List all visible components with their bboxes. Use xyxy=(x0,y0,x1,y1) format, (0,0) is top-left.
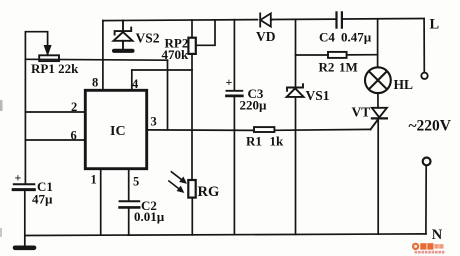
potentiometer RP1 wiper wire xyxy=(25,32,47,47)
svg-text:~220V: ~220V xyxy=(409,117,452,134)
wire RG bottom xyxy=(191,198,193,235)
diode VD xyxy=(260,13,271,26)
wire R2 left xyxy=(296,54,329,56)
capacitor C3 xyxy=(227,91,243,96)
photoresistor RG arrows xyxy=(169,172,186,193)
wire C2 bottom xyxy=(128,208,130,235)
wire pin8 vertical xyxy=(102,21,104,90)
wire RP1 row xyxy=(25,58,167,61)
wire R2 right xyxy=(347,54,378,56)
svg-text:2: 2 xyxy=(71,100,77,114)
scan mark left edge xyxy=(0,100,3,111)
wire left vertical xyxy=(24,33,26,183)
wire R1 to VT gate xyxy=(274,128,370,131)
svg-text:3: 3 xyxy=(151,115,157,129)
zener diode VS1 xyxy=(287,84,304,97)
wire pin3 row xyxy=(147,129,254,132)
thyristor VT xyxy=(371,108,387,130)
lamp HL xyxy=(365,67,391,93)
wire pin6 xyxy=(25,139,85,141)
photoresistor RG body xyxy=(188,180,195,198)
terminal L xyxy=(421,73,427,79)
svg-text:4: 4 xyxy=(132,77,139,91)
ground xyxy=(15,246,34,251)
potentiometer RP2 top wire xyxy=(191,20,193,38)
svg-text:VD: VD xyxy=(256,29,276,44)
svg-text:VT: VT xyxy=(352,105,371,120)
potentiometer RP1 wiper arrowhead xyxy=(44,46,51,56)
watermark logo xyxy=(412,243,445,254)
wire VS1 bottom xyxy=(295,97,297,234)
svg-text:C4: C4 xyxy=(319,30,335,45)
zener diode VS1 top wire xyxy=(295,19,297,87)
wire L terminal drop xyxy=(423,19,425,73)
svg-text:RP1 22k: RP1 22k xyxy=(31,61,79,76)
svg-text:L: L xyxy=(430,16,440,32)
wire HL top xyxy=(377,19,379,68)
capacitor C2 xyxy=(120,201,140,207)
svg-text:IC: IC xyxy=(110,124,126,139)
wire pin5 xyxy=(128,169,130,201)
svg-text:8: 8 xyxy=(92,76,98,90)
svg-text:47µ: 47µ xyxy=(32,191,53,206)
svg-text:220µ: 220µ xyxy=(240,98,268,113)
svg-text:R2: R2 xyxy=(319,59,335,74)
svg-text:+: + xyxy=(226,75,233,89)
svg-text:R1: R1 xyxy=(246,133,262,148)
svg-text:VS1: VS1 xyxy=(306,88,330,103)
capacitor C4 xyxy=(337,12,342,27)
wire top rail right segment xyxy=(342,18,424,21)
wire bottom rail xyxy=(25,234,426,236)
resistor R1 xyxy=(254,127,274,132)
svg-text:0.01µ: 0.01µ xyxy=(134,209,165,224)
svg-text:1k: 1k xyxy=(270,133,285,148)
wire corner to pin3 row xyxy=(167,60,169,130)
wire RP2 bottom to RG xyxy=(191,54,193,180)
svg-text:1: 1 xyxy=(91,173,97,187)
wire HL to VT xyxy=(377,93,379,108)
wire pin2 xyxy=(25,111,85,113)
svg-text:+: + xyxy=(15,171,22,185)
svg-text:VS2: VS2 xyxy=(136,31,160,46)
wire VT cathode xyxy=(377,119,379,234)
potentiometer RP2 wiper xyxy=(196,20,215,45)
potentiometer RP2 body xyxy=(188,38,195,54)
potentiometer RP1 body xyxy=(39,55,59,61)
capacitor C3 top wire xyxy=(233,20,235,91)
svg-text:HL: HL xyxy=(394,77,414,92)
wire below C1 xyxy=(24,191,26,247)
wire pin1 xyxy=(100,169,102,235)
svg-text:6: 6 xyxy=(71,128,77,142)
svg-text:1M: 1M xyxy=(339,59,358,74)
terminal N xyxy=(423,158,431,166)
ground VS2 xyxy=(114,49,133,53)
wire top rail mid segment xyxy=(271,18,336,20)
svg-text:N: N xyxy=(432,227,443,243)
IC U1 box xyxy=(85,90,146,168)
wire C3 bottom xyxy=(233,96,235,235)
wire top rail left segment xyxy=(103,20,258,21)
svg-text:0.47µ: 0.47µ xyxy=(341,30,372,45)
resistor R2 xyxy=(328,52,347,58)
svg-text:470k: 470k xyxy=(162,47,190,62)
wire N drop xyxy=(425,165,427,234)
svg-text:5: 5 xyxy=(133,175,139,189)
zener diode VS2 xyxy=(114,21,133,49)
capacitor C1 xyxy=(13,184,34,189)
svg-text:RG: RG xyxy=(198,184,220,200)
wire pin4 xyxy=(132,70,192,89)
scan mark left edge lower xyxy=(0,228,2,237)
